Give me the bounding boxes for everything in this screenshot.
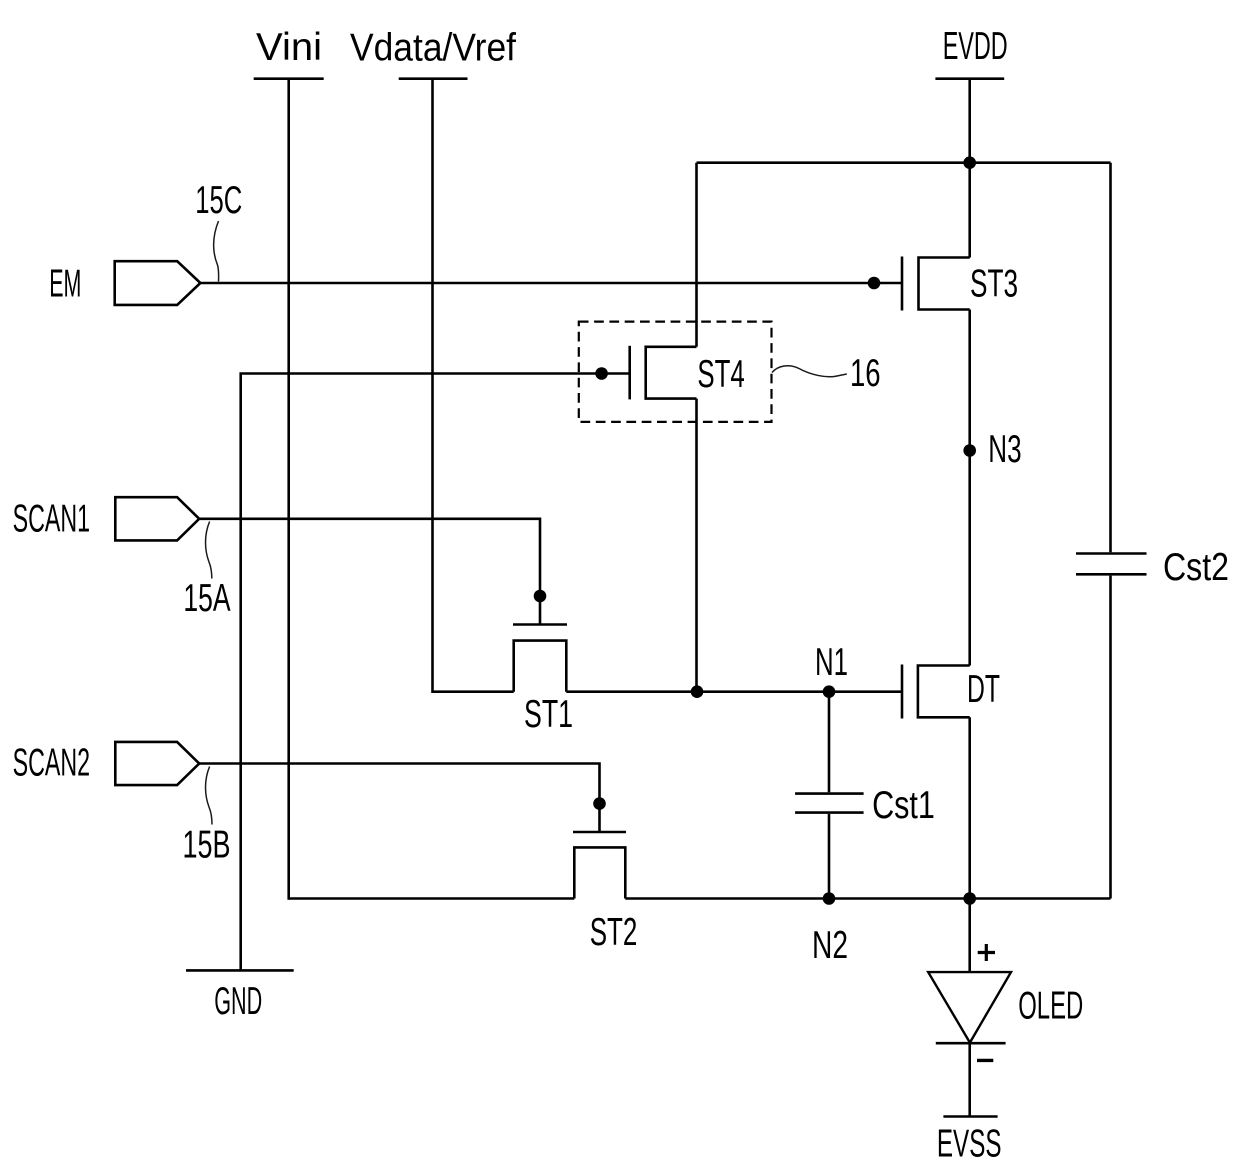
terminal EVSS	[937, 1117, 1002, 1166]
transistor ST4	[630, 346, 745, 400]
diode OLED	[928, 899, 1083, 1117]
svg-text:OLED: OLED	[1018, 985, 1083, 1028]
label 15A	[183, 522, 230, 621]
wire Vdata vertical	[433, 79, 514, 692]
svg-text:Vini: Vini	[256, 26, 322, 69]
transistor DT	[902, 665, 1000, 719]
wire ST1 drain to DT gate	[566, 690, 902, 693]
junction dot ST3 gate	[868, 277, 881, 290]
svg-text:16: 16	[850, 352, 881, 395]
label plus	[978, 944, 995, 961]
label 15C	[195, 179, 242, 282]
label 15B	[183, 767, 231, 867]
node N1	[815, 641, 848, 698]
wire DT source down	[968, 717, 971, 898]
wire bottom rail left	[289, 897, 575, 900]
svg-text:ST4: ST4	[697, 353, 744, 396]
input flag SCAN1	[13, 497, 200, 540]
junction dot ST4 to N1 line	[691, 685, 704, 698]
wire Vini vertical	[287, 79, 290, 900]
input flag SCAN2	[13, 742, 200, 786]
svg-text:SCAN1: SCAN1	[13, 498, 91, 541]
svg-text:DT: DT	[967, 668, 1000, 711]
label minus	[977, 1059, 993, 1062]
wire ST4 source down	[695, 399, 698, 692]
wire EVDD vertical to ST3	[968, 79, 971, 258]
terminal Vdata/Vref	[350, 27, 516, 79]
svg-text:ST1: ST1	[524, 693, 573, 736]
transistor ST3	[902, 257, 1018, 311]
capacitor Cst2	[1076, 163, 1229, 899]
svg-text:15A: 15A	[183, 577, 230, 620]
wire SCAN1 to ST1 gate	[199, 519, 540, 625]
svg-text:N1: N1	[815, 641, 848, 684]
svg-text:Cst2: Cst2	[1163, 546, 1229, 589]
svg-text:Cst1: Cst1	[872, 784, 935, 827]
ground GND	[186, 970, 294, 1023]
wire ST3 drain to DT	[968, 310, 971, 666]
label 16	[772, 352, 881, 395]
wire ST4 drain up	[695, 163, 698, 347]
input flag EM	[49, 261, 200, 305]
svg-text:GND: GND	[214, 980, 262, 1023]
terminal Vini	[254, 26, 324, 79]
junction dot ST2 gate	[593, 797, 606, 810]
svg-text:15B: 15B	[183, 824, 231, 867]
svg-text:ST3: ST3	[970, 263, 1018, 306]
svg-text:SCAN2: SCAN2	[13, 742, 91, 785]
wire EM to ST3 gate	[200, 282, 902, 285]
wire top horizontal rail	[697, 161, 1111, 164]
svg-text:15C: 15C	[195, 179, 242, 222]
transistor ST2	[573, 832, 637, 954]
junction dot DT-OLED	[963, 892, 976, 905]
wire SCAN2 to ST2 gate	[199, 764, 599, 833]
svg-text:ST2: ST2	[590, 911, 638, 954]
svg-text:EM: EM	[49, 263, 81, 306]
terminal EVDD	[935, 25, 1007, 79]
node N2	[812, 892, 848, 967]
wire ST4 gate line	[241, 374, 630, 971]
svg-text:N3: N3	[988, 428, 1021, 471]
junction dot ST1 gate	[534, 590, 547, 603]
transistor ST1	[513, 625, 573, 737]
capacitor Cst1	[795, 692, 935, 899]
svg-text:N2: N2	[812, 924, 848, 967]
svg-text:EVSS: EVSS	[937, 1123, 1002, 1166]
svg-text:Vdata/Vref: Vdata/Vref	[350, 27, 516, 70]
svg-text:EVDD: EVDD	[943, 25, 1008, 68]
wire bottom rail right	[625, 897, 1110, 900]
junction dot ST4 gate	[595, 367, 608, 380]
node N3	[963, 428, 1021, 471]
dashed box 16 around ST4	[579, 322, 772, 422]
junction dot EVDD rail	[963, 156, 976, 169]
